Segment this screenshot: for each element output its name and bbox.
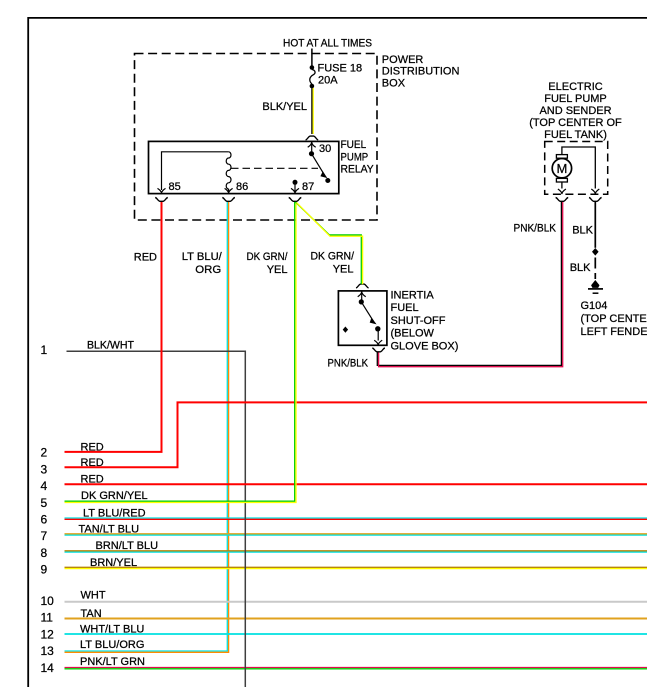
label G104 (TOP CENTER LEFT FENDER) — [581, 300, 647, 338]
fuse F18 20A — [310, 65, 315, 88]
connector below fuel pump left pin — [556, 198, 569, 202]
svg-text:2: 2 — [41, 446, 48, 460]
svg-text:DK GRN/: DK GRN/ — [247, 251, 289, 263]
svg-text:(TOP CENTER OF: (TOP CENTER OF — [529, 117, 622, 129]
relay pin 30 arrow and stem — [308, 142, 316, 152]
wire RED from relay pin 85 down to row 2 — [65, 202, 162, 452]
svg-text:86: 86 — [236, 181, 248, 193]
svg-text:RELAY: RELAY — [341, 164, 375, 176]
connector below fuel pump right pin — [589, 198, 602, 202]
svg-text:30: 30 — [319, 143, 331, 155]
svg-text:FUEL: FUEL — [341, 139, 367, 151]
fuel pump dashed box — [545, 142, 608, 195]
wire row 12 WHT/LT BLU — [65, 633, 647, 635]
svg-text:BRN/YEL: BRN/YEL — [90, 557, 137, 569]
connector below relay pin 87 — [289, 198, 302, 202]
wire row 8 BRN/LT BLU — [65, 551, 647, 552]
svg-text:WHT: WHT — [81, 590, 106, 602]
fuel pump right pin arrow — [591, 189, 599, 194]
svg-text:9: 9 — [41, 563, 48, 577]
relay pin 86 arrow — [225, 188, 233, 193]
svg-text:RED: RED — [134, 252, 157, 264]
svg-text:TAN/LT BLU: TAN/LT BLU — [79, 523, 140, 535]
svg-text:POWER: POWER — [382, 54, 424, 66]
svg-text:85: 85 — [169, 181, 181, 193]
svg-text:PUMP: PUMP — [341, 152, 369, 164]
wire row 11 TAN — [65, 618, 647, 620]
svg-text:20A: 20A — [318, 74, 338, 86]
wire row 4 RED — [65, 483, 647, 485]
wire PNK/BLK from inertia switch to fuel pump — [377, 202, 562, 367]
svg-text:FUEL PUMP: FUEL PUMP — [544, 93, 607, 105]
svg-text:(TOP CENTER: (TOP CENTER — [581, 313, 647, 325]
svg-text:BLK/YEL: BLK/YEL — [262, 101, 307, 113]
svg-text:PNK/BLK: PNK/BLK — [328, 357, 369, 369]
fuel pump internal wiring loop — [562, 147, 595, 189]
wire row 10 WHT — [65, 601, 647, 603]
wire row 6 LT BLU/RED — [65, 518, 647, 519]
svg-text:13: 13 — [41, 644, 55, 658]
label DK GRN/YEL (branch to inertia switch) — [311, 251, 355, 276]
label FUEL PUMP RELAY — [341, 139, 375, 175]
wire BLK dashed below splice — [594, 258, 596, 280]
label DK GRN/YEL (pin 87 straight wire) — [247, 251, 289, 276]
inertia fuel shut-off switch box — [338, 291, 387, 345]
svg-text:6: 6 — [41, 513, 48, 527]
splice diamond on BLK wire — [592, 248, 599, 256]
svg-text:11: 11 — [41, 611, 54, 625]
svg-text:SHUT-OFF: SHUT-OFF — [391, 315, 446, 327]
label ELECTRIC FUEL PUMP AND SENDER (TOP CENTER OF FUEL TANK) — [529, 81, 622, 141]
svg-text:WHT/LT BLU: WHT/LT BLU — [80, 623, 144, 635]
svg-text:LEFT FENDER: LEFT FENDER — [581, 326, 647, 338]
svg-text:BLK: BLK — [570, 262, 591, 274]
connector above relay pin 30 — [306, 136, 319, 140]
wire row 3 RED with riser to long feed — [65, 402, 647, 467]
svg-text:DK GRN/YEL: DK GRN/YEL — [81, 490, 148, 502]
fuel pump left pin arrow — [558, 189, 566, 194]
relay switch blade from pin 30 — [309, 151, 330, 183]
svg-text:DK GRN/: DK GRN/ — [311, 251, 355, 263]
svg-text:GLOVE BOX): GLOVE BOX) — [391, 340, 459, 352]
svg-text:YEL: YEL — [333, 264, 354, 276]
wire DK GRN/YEL branch from pin 87 to inertia switch — [295, 202, 362, 284]
svg-text:10: 10 — [41, 594, 55, 608]
svg-text:LT BLU/ORG: LT BLU/ORG — [80, 639, 144, 651]
svg-text:AND SENDER: AND SENDER — [539, 105, 611, 117]
svg-text:TAN: TAN — [81, 608, 102, 620]
svg-text:BLK/WHT: BLK/WHT — [87, 340, 134, 352]
svg-text:FUSE 18: FUSE 18 — [318, 63, 363, 75]
wire BLK from fuel pump right pin — [594, 202, 596, 248]
ground symbol G104 — [588, 280, 603, 293]
wire row 1 BLK/WHT — [67, 351, 246, 687]
wire LT BLU/ORG from relay pin 86 down to row 13 — [65, 202, 229, 652]
svg-text:BLK: BLK — [572, 224, 593, 236]
relay pin 87 contact and arrow — [291, 180, 299, 194]
svg-text:G104: G104 — [581, 300, 608, 312]
relay pin 85 arrow — [158, 188, 166, 193]
svg-text:12: 12 — [41, 628, 55, 642]
svg-text:14: 14 — [41, 661, 55, 675]
svg-text:4: 4 — [41, 479, 48, 493]
svg-text:5: 5 — [41, 496, 48, 510]
connector below relay pin 85 — [155, 198, 168, 202]
label POWER DISTRIBUTION BOX — [382, 54, 460, 89]
svg-text:FUEL TANK): FUEL TANK) — [544, 129, 607, 141]
svg-text:HOT AT ALL TIMES: HOT AT ALL TIMES — [283, 38, 372, 50]
svg-text:DISTRIBUTION: DISTRIBUTION — [382, 66, 460, 78]
connector below inertia switch — [372, 348, 385, 352]
wire row 7 TAN/LT BLU — [65, 534, 647, 535]
wire DK GRN/YEL from relay pin 87 down to row 5 — [65, 202, 297, 503]
svg-text:(BELOW: (BELOW — [391, 328, 435, 340]
label LT BLU/ORG (pin 86 wire) — [182, 251, 223, 276]
svg-text:FUEL: FUEL — [391, 302, 419, 314]
svg-text:87: 87 — [302, 181, 314, 193]
wire BLK/YEL fuse to relay — [312, 88, 313, 134]
svg-text:M: M — [556, 161, 567, 176]
svg-text:7: 7 — [41, 529, 48, 543]
connector above inertia switch — [356, 284, 369, 288]
svg-text:PNK/BLK: PNK/BLK — [514, 222, 557, 234]
inertia switch internals — [343, 292, 383, 346]
label FUSE 18 / 20A — [318, 63, 363, 87]
svg-text:BRN/LT BLU: BRN/LT BLU — [96, 540, 159, 552]
svg-text:ELECTRIC: ELECTRIC — [548, 81, 602, 93]
svg-text:8: 8 — [41, 546, 48, 560]
fuel pump relay box — [149, 141, 339, 193]
svg-text:ORG: ORG — [195, 264, 221, 276]
svg-text:3: 3 — [41, 462, 48, 476]
wire feed from HOT AT ALL TIMES to fuse — [311, 49, 313, 67]
wire row 14 PNK/LT GRN — [65, 668, 647, 669]
svg-text:1: 1 — [41, 343, 48, 357]
svg-text:YEL: YEL — [267, 264, 288, 276]
svg-text:LT BLU/: LT BLU/ — [182, 251, 223, 263]
svg-text:PNK/LT GRN: PNK/LT GRN — [80, 656, 145, 668]
power distribution box (dashed) — [135, 54, 378, 221]
connector below relay pin 86 — [222, 198, 235, 202]
fuel pump motor M — [552, 155, 571, 182]
label INERTIA FUEL SHUT-OFF (BELOW GLOVE BOX) — [391, 290, 459, 353]
svg-text:BOX: BOX — [382, 77, 406, 89]
relay coil path from pin 85 — [162, 152, 232, 190]
wire row 9 BRN/YEL — [65, 567, 647, 568]
relay mechanical link (dashed) — [231, 167, 318, 169]
svg-text:INERTIA: INERTIA — [391, 290, 435, 302]
svg-text:LT BLU/RED: LT BLU/RED — [83, 508, 146, 520]
